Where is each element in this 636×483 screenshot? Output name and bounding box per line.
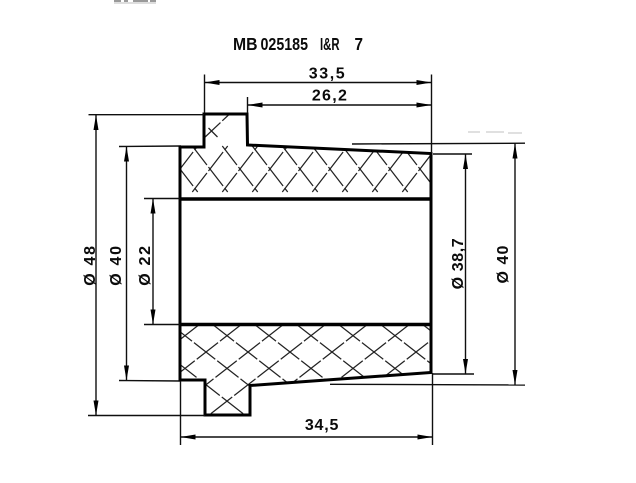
dimension line 34,5	[181, 436, 433, 438]
dimension line dia40 left	[126, 146, 128, 380]
dimension line 33,5	[205, 82, 432, 84]
svg-text:Ø 40: Ø 40	[495, 244, 512, 283]
dimension line dia22	[152, 199, 154, 325]
arrow 26,2 right	[417, 103, 432, 108]
extension line dia38,7 bottom	[433, 373, 474, 375]
dimension line 26,2	[248, 104, 432, 106]
extension line dia38,7 top	[433, 153, 472, 155]
extension line dia48 bottom	[88, 415, 205, 417]
extension line dia22 top	[144, 198, 180, 200]
bore bottom line	[179, 323, 433, 327]
arrow dia40 right top	[513, 143, 518, 158]
arrow dia38,7 bottom	[463, 359, 468, 374]
svg-text:Ø 38,7: Ø 38,7	[450, 238, 467, 290]
extension line dia40 top (shared left/right, passes behind part)	[119, 145, 181, 148]
part body white fill	[180, 114, 431, 415]
arrow dia38,7 top	[463, 154, 468, 169]
extension lines 34,5	[180, 381, 182, 445]
arrow dia40 right bottom	[513, 370, 518, 385]
dimension line dia40 right	[514, 143, 516, 385]
dimension line dia38,7	[465, 154, 467, 374]
svg-text:Ø 22: Ø 22	[137, 244, 154, 286]
arrow dia48 bottom	[94, 401, 99, 416]
arrow dia22 top	[151, 199, 156, 214]
extension line dia22 bottom	[144, 324, 180, 326]
arrow 26,2 left	[248, 103, 263, 108]
faint scan smudge right of part	[468, 131, 522, 134]
bore top line	[179, 197, 433, 201]
hatch top wall	[162, 115, 467, 193]
cropped text remnant at top edge	[114, 0, 156, 4]
svg-text:33,5: 33,5	[309, 66, 347, 83]
extension line dia40 bottom (shared left/right, passes behind part)	[119, 380, 181, 383]
part outline	[180, 114, 431, 415]
extension line 26,2	[247, 97, 249, 113]
svg-text:34,5: 34,5	[305, 417, 339, 434]
svg-text:Ø 48: Ø 48	[82, 244, 99, 286]
arrow 34,5 left	[181, 435, 196, 440]
svg-text:Ø 40: Ø 40	[108, 244, 125, 286]
hatch bottom wall	[83, 325, 539, 416]
arrow 33,5 left	[205, 80, 220, 85]
arrow dia22 bottom	[151, 310, 156, 325]
arrow 33,5 right	[417, 80, 432, 85]
arrow dia40 left top	[124, 146, 129, 161]
dimension line dia48	[95, 115, 97, 416]
svg-text:26,2: 26,2	[312, 88, 348, 105]
arrow dia48 top	[94, 115, 99, 130]
arrow 34,5 right	[418, 435, 433, 440]
arrow dia40 left bottom	[124, 366, 129, 381]
extension line dia48 top	[89, 114, 205, 116]
extension lines 33,5	[204, 75, 206, 114]
